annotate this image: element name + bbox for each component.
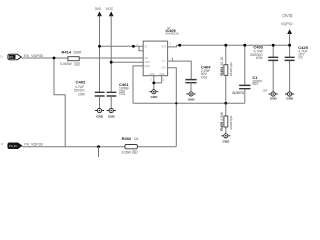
ground symbol C401 left [95, 108, 104, 118]
svg-text:10%: 10% [78, 93, 85, 97]
wire VCC vertical rail [110, 16, 112, 93]
junction C403 top [272, 44, 275, 47]
op-amp U1 IC405 box [143, 41, 167, 76]
power symbol 3V3 [95, 7, 102, 92]
wire stub to sheet edge [98, 147, 100, 157]
wire RX net to R414 and IC pin2 [21, 57, 143, 59]
svg-text:R402: R402 [122, 136, 132, 141]
ground symbol C425 [285, 92, 294, 101]
resistor R402 [121, 136, 138, 154]
svg-text:C02: C02 [263, 88, 268, 92]
svg-text:ON: ON [145, 58, 149, 60]
junction C425 top [288, 44, 291, 47]
junction P4 wire [97, 145, 100, 148]
wire feedback bus [133, 102, 245, 104]
wire from (3V3) arrow down [289, 33, 291, 45]
svg-text:C8: C8 [134, 137, 138, 141]
junction pin1 wire [132, 45, 135, 48]
wire IC pin4 to feedback bus [133, 66, 143, 103]
svg-text:R404 22.1K: R404 22.1K [220, 56, 224, 76]
svg-text:P4_IN: P4_IN [9, 144, 16, 148]
wire IC pin3 from VCC rail [111, 61, 143, 63]
ground symbol C403 [263, 88, 278, 100]
ground symbol C401 right [107, 108, 116, 118]
junction RX wire [53, 57, 56, 60]
svg-text:C02: C02 [201, 76, 207, 80]
svg-text:GND: GND [188, 98, 196, 102]
junction 3V3 / pin1 [98, 45, 101, 48]
svg-text:1/16W Q22: 1/16W Q22 [229, 62, 233, 77]
svg-text:1/16W: 1/16W [121, 150, 131, 154]
connector tag RX input [0, 54, 21, 60]
svg-text:GND: GND [145, 62, 150, 64]
power symbol VCC [106, 7, 114, 92]
svg-text:330R: 330R [73, 51, 82, 55]
wire CT pin to C404 [168, 61, 192, 79]
wire P4 net to R402 [22, 146, 176, 148]
wire IC bottom GND stubs [154, 76, 162, 90]
ground symbol C404 [186, 92, 195, 102]
svg-text:(3V3): (3V3) [282, 13, 293, 18]
junction VCC / pin3 [110, 61, 113, 64]
svg-text:IN: IN [145, 47, 148, 49]
svg-text:GND: GND [96, 114, 104, 118]
junction GND stubs [152, 82, 155, 85]
wire riser from RX net down [54, 58, 65, 147]
resistor R404 [220, 45, 233, 103]
svg-text:ADJ: ADJ [161, 67, 165, 70]
resistor R405 [220, 103, 233, 133]
svg-text:GND: GND [223, 140, 231, 144]
svg-text:R405 4.99K: R405 4.99K [220, 111, 224, 131]
svg-text:3V3: 3V3 [95, 7, 101, 11]
junction OUT [178, 44, 181, 47]
wire OUT main [177, 44, 290, 46]
svg-text:KIA43214: KIA43214 [166, 32, 180, 36]
svg-text:VCC: VCC [106, 7, 114, 11]
capacitor C403 [250, 44, 278, 92]
ground symbol IC [149, 90, 158, 99]
capacitor C402 label [74, 79, 86, 96]
wire ADJ pin riser down to bus and R402 [168, 68, 177, 147]
svg-text:OUT: OUT [161, 47, 166, 49]
junction bus / ADJ riser [175, 102, 177, 104]
svg-text:ADDED: ADDED [232, 91, 244, 95]
svg-text:GND: GND [108, 114, 116, 118]
svg-text:VQP10: VQP10 [281, 22, 293, 26]
svg-text:C0: C0 [298, 56, 302, 60]
svg-text:C402: C402 [76, 79, 86, 84]
resistor R414 [60, 50, 82, 67]
wire IC pin1 from 3V3 rail [100, 46, 144, 50]
ground symbol R405 [221, 134, 230, 144]
connector tag P4 [1, 143, 22, 149]
svg-text:GND: GND [270, 96, 278, 100]
capacitor C425 [285, 45, 309, 92]
capacitor C404 [185, 64, 211, 92]
svg-text:P4_VQP33: P4_VQP33 [24, 142, 42, 146]
capacitor C1 [239, 45, 262, 103]
svg-text:GND: GND [151, 95, 159, 99]
junction R404 bottom bus [224, 102, 227, 105]
svg-text:GND: GND [145, 66, 150, 68]
svg-text:0.063W: 0.063W [60, 62, 72, 66]
svg-text:1/16W Q22: 1/16W Q22 [229, 115, 233, 130]
svg-text:R414: R414 [62, 50, 72, 55]
capacitor C401 (pair) [95, 82, 130, 109]
svg-text:C02: C02 [119, 92, 125, 96]
svg-text:10%: 10% [256, 56, 263, 60]
pin tick [171, 58, 173, 61]
junction R404 top [224, 44, 227, 47]
svg-text:GND: GND [286, 96, 294, 100]
junction C1 top [243, 44, 246, 47]
svg-text:50V: 50V [252, 82, 259, 86]
wire OUT pin stub [168, 45, 177, 47]
svg-text:RX: RX [10, 55, 14, 59]
wire 3V3 vertical rail [99, 16, 101, 93]
power symbol (3V3) output rail [281, 13, 293, 45]
